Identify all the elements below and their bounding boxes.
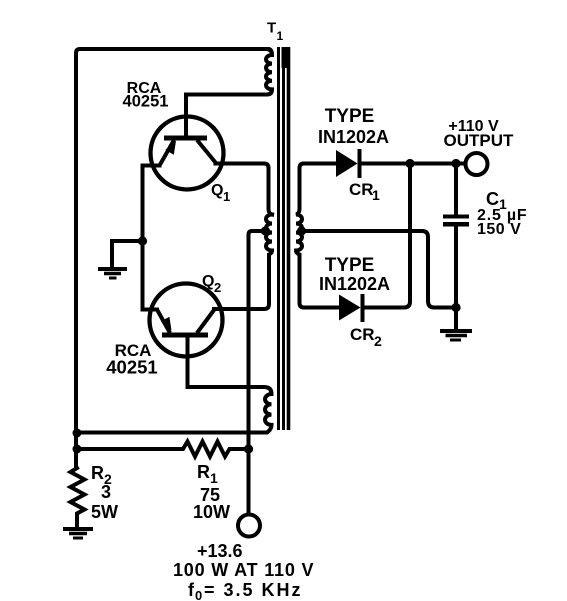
svg-text:1: 1 <box>223 189 230 204</box>
svg-text:Q: Q <box>211 182 223 199</box>
svg-text:TYPE: TYPE <box>325 106 375 127</box>
svg-text:C: C <box>486 189 499 209</box>
svg-text:150 V: 150 V <box>477 221 521 238</box>
svg-text:CR: CR <box>350 325 375 344</box>
svg-text:TYPE: TYPE <box>325 255 375 276</box>
svg-text:1: 1 <box>372 187 380 203</box>
svg-text:Q: Q <box>202 273 214 290</box>
svg-text:100 W AT 110 V: 100 W AT 110 V <box>173 560 314 580</box>
svg-text:R: R <box>91 463 104 483</box>
svg-text:T: T <box>267 20 276 37</box>
svg-text:f: f <box>188 580 195 600</box>
svg-text:2: 2 <box>214 280 221 295</box>
svg-text:3: 3 <box>101 482 111 502</box>
svg-text:5W: 5W <box>91 502 118 522</box>
svg-text:40251: 40251 <box>123 93 169 111</box>
svg-text:1: 1 <box>210 470 218 486</box>
svg-text:+13.6: +13.6 <box>197 541 243 561</box>
svg-text:40251: 40251 <box>106 357 157 378</box>
svg-text:R: R <box>197 462 210 482</box>
svg-text:0: 0 <box>195 588 202 601</box>
svg-text:IN1202A: IN1202A <box>319 274 390 294</box>
svg-text:IN1202A: IN1202A <box>318 127 389 147</box>
svg-text:OUTPUT: OUTPUT <box>444 131 515 150</box>
svg-text:CR: CR <box>349 180 374 199</box>
svg-text:= 3.5 KHz: = 3.5 KHz <box>204 580 303 600</box>
svg-text:2: 2 <box>374 333 382 349</box>
svg-text:1: 1 <box>277 29 284 43</box>
svg-text:10W: 10W <box>193 502 230 522</box>
